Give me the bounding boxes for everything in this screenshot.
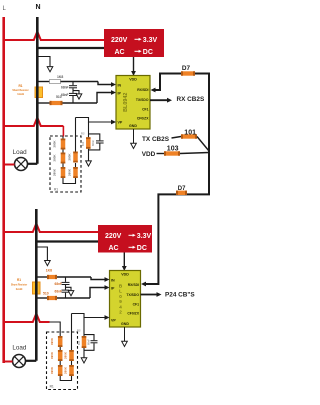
svg-text:AC: AC xyxy=(115,49,125,56)
svg-text:1mΩ: 1mΩ xyxy=(16,287,23,291)
svg-text:VDD: VDD xyxy=(129,78,137,82)
svg-text:D7: D7 xyxy=(178,186,186,192)
svg-text:R2: R2 xyxy=(77,329,81,333)
svg-text:IN: IN xyxy=(111,279,115,283)
svg-text:VDD: VDD xyxy=(121,273,129,277)
svg-text:390K: 390K xyxy=(53,140,57,148)
svg-text:CF1: CF1 xyxy=(133,303,140,307)
svg-text:68nF: 68nF xyxy=(91,140,95,146)
svg-text:CF1: CF1 xyxy=(142,108,149,112)
svg-text:220V: 220V xyxy=(105,233,122,240)
svg-text:GND: GND xyxy=(121,322,129,326)
svg-text:390K: 390K xyxy=(67,168,71,176)
svg-text:R1: R1 xyxy=(50,385,54,389)
svg-text:D7: D7 xyxy=(182,65,191,72)
svg-text:510: 510 xyxy=(81,141,85,146)
svg-text:VDD: VDD xyxy=(142,151,156,158)
svg-text:390K: 390K xyxy=(53,168,57,176)
svg-text:CF0/ZX: CF0/ZX xyxy=(127,312,139,316)
svg-text:IP: IP xyxy=(118,92,122,96)
svg-text:TX/SDO: TX/SDO xyxy=(126,293,139,297)
svg-text:510: 510 xyxy=(43,291,49,295)
svg-text:3.3V: 3.3V xyxy=(137,233,152,240)
svg-text:68nF: 68nF xyxy=(55,290,62,294)
svg-text:1K8: 1K8 xyxy=(46,269,52,273)
svg-text:RX/SDI: RX/SDI xyxy=(137,88,148,92)
svg-text:IN: IN xyxy=(118,84,122,88)
svg-text:RX/SDI: RX/SDI xyxy=(128,283,139,287)
svg-text:GND: GND xyxy=(129,124,137,128)
svg-text:68nF: 68nF xyxy=(86,339,90,345)
svg-text:390K: 390K xyxy=(50,351,54,359)
svg-text:390K: 390K xyxy=(63,366,67,374)
svg-text:390K: 390K xyxy=(53,154,57,162)
svg-text:DC: DC xyxy=(143,49,153,56)
svg-text:VP: VP xyxy=(118,121,123,125)
svg-text:TX CB2S: TX CB2S xyxy=(142,136,170,143)
svg-text:101: 101 xyxy=(184,129,196,136)
svg-text:510: 510 xyxy=(77,340,81,345)
svg-text:390K: 390K xyxy=(63,351,67,359)
svg-text:220V: 220V xyxy=(111,37,128,44)
svg-text:RX CB2S: RX CB2S xyxy=(177,96,205,103)
svg-text:68nF: 68nF xyxy=(61,85,68,89)
svg-text:CF0/ZX: CF0/ZX xyxy=(137,117,149,121)
svg-text:R1: R1 xyxy=(17,278,21,282)
svg-text:BL0942: BL0942 xyxy=(123,93,129,112)
svg-text:510: 510 xyxy=(56,95,62,99)
svg-text:1K8: 1K8 xyxy=(57,75,63,79)
svg-text:R1: R1 xyxy=(18,84,22,88)
svg-text:Load: Load xyxy=(12,345,27,352)
svg-text:DC: DC xyxy=(137,245,147,252)
svg-text:390K: 390K xyxy=(50,337,54,345)
svg-text:IP: IP xyxy=(111,287,115,291)
svg-text:AC: AC xyxy=(109,245,119,252)
svg-text:390K: 390K xyxy=(67,153,71,161)
svg-text:P24 CB"S: P24 CB"S xyxy=(165,291,195,298)
svg-text:103: 103 xyxy=(167,145,179,152)
svg-text:TX/SDO: TX/SDO xyxy=(136,98,149,102)
svg-text:R1: R1 xyxy=(54,188,58,192)
svg-text:R2: R2 xyxy=(81,132,85,136)
svg-text:390K: 390K xyxy=(50,366,54,374)
svg-text:VP: VP xyxy=(111,319,116,323)
svg-text:68nF: 68nF xyxy=(55,282,62,286)
svg-text:Load: Load xyxy=(13,149,28,156)
svg-text:2: 2 xyxy=(119,310,122,315)
svg-text:N: N xyxy=(36,4,41,11)
svg-text:68nF: 68nF xyxy=(61,93,68,97)
svg-text:3.3V: 3.3V xyxy=(143,37,158,44)
svg-text:1mΩ: 1mΩ xyxy=(17,92,24,96)
